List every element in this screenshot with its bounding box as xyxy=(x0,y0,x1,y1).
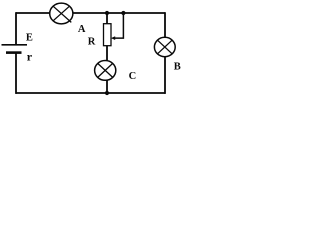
lamp B body xyxy=(154,37,175,56)
lamp C body xyxy=(95,61,116,81)
wire bottom bus xyxy=(16,92,165,94)
svg-text:r: r xyxy=(27,49,33,63)
wire left branch upper (battery + terminal to top-left corner) xyxy=(15,12,17,44)
wire rheostat top terminal xyxy=(106,13,108,24)
battery long plate (positive) xyxy=(2,44,28,46)
wire right branch through lamp B xyxy=(164,12,166,94)
lamp A body xyxy=(50,3,73,24)
junction dot at lamp C bottom xyxy=(105,91,109,95)
wire rheostat wiper arm from top bus xyxy=(113,13,123,38)
svg-text:B: B xyxy=(174,62,181,73)
junction dot at rheostat top xyxy=(105,11,109,15)
lamp C cross xyxy=(98,63,113,77)
rheostat R body xyxy=(104,24,112,46)
wire rheostat bottom terminal through lamp C to bottom bus xyxy=(106,46,108,94)
wire left branch lower (battery - terminal to bottom-left corner) xyxy=(15,54,17,94)
svg-text:A: A xyxy=(78,24,86,35)
battery short plate (negative) xyxy=(6,51,22,54)
wire top bus from battery to right side xyxy=(16,12,165,14)
svg-text:E: E xyxy=(26,33,33,44)
lamp B cross xyxy=(158,40,173,54)
junction dot at wiper arm top xyxy=(121,11,125,15)
lamp A cross xyxy=(53,6,71,22)
svg-text:R: R xyxy=(88,37,96,48)
svg-text:C: C xyxy=(129,71,137,82)
wiper arrowhead pointing left at rheostat body xyxy=(111,36,115,40)
